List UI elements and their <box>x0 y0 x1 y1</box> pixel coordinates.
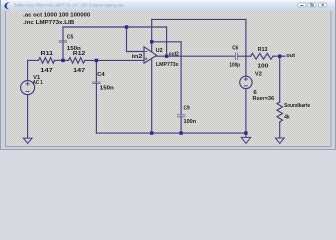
titlebar icon <box>4 2 9 9</box>
wire: main input run left of R11 <box>28 59 39 61</box>
op-amp U2 triangle <box>144 47 157 63</box>
svg-text:R13: R13 <box>258 47 268 53</box>
wire: load to ground <box>279 122 281 138</box>
resistor R12 <box>69 58 86 64</box>
wire: V1 top stub <box>27 60 29 80</box>
wire: R13 to out node <box>273 55 285 57</box>
wire: C4 upper lead <box>95 60 97 82</box>
voltage source V2 <box>240 76 252 88</box>
wire: -in branch horizontal <box>127 51 145 53</box>
wire: op-amp output to C6 <box>156 55 236 57</box>
wire: out node down to load <box>279 56 281 102</box>
wire: C5 upper lead to feedback rail <box>62 27 64 41</box>
svg-text:V2: V2 <box>255 71 262 77</box>
svg-text:R12: R12 <box>73 51 86 57</box>
svg-text:Sallen-Key-Filter mit LMP773x: Sallen-Key-Filter mit LMP773x 147 150 Fr… <box>14 2 125 7</box>
ground (V1) <box>23 138 32 143</box>
op-amp V- pin <box>151 59 153 133</box>
svg-text:AC 1: AC 1 <box>33 80 43 86</box>
wire: supply drop to V2 <box>245 19 247 76</box>
window button: close <box>318 3 326 7</box>
node V2 on rail <box>244 131 247 134</box>
svg-text:R11: R11 <box>41 51 54 57</box>
wire: feedback top rail <box>63 26 167 28</box>
node out2 <box>165 55 168 58</box>
capacitor C5 <box>59 41 67 42</box>
wire: bottom ground rail <box>96 132 246 134</box>
svg-text:LMP773x: LMP773x <box>156 62 179 68</box>
svg-text:100n: 100n <box>184 119 197 125</box>
node out <box>278 55 281 58</box>
ground (V2) <box>241 133 250 143</box>
wire: C5 lower lead <box>62 42 64 60</box>
op-amp input polarity marks <box>145 52 148 61</box>
svg-text:Soundkarte: Soundkarte <box>284 103 310 109</box>
svg-text:100p: 100p <box>229 62 240 68</box>
wire: bypass branch horizontal <box>152 41 181 43</box>
resistor R11 <box>39 58 55 64</box>
junction node dots <box>61 25 281 134</box>
resistor R13 <box>251 53 273 59</box>
node feedback/-in <box>125 25 128 28</box>
svg-text:100: 100 <box>257 64 268 70</box>
capacitor C4 <box>93 82 101 84</box>
capacitor C9 <box>177 115 185 117</box>
node V+/bypass <box>150 40 153 43</box>
wire: R12 to op-amp +in <box>85 59 144 61</box>
svg-text:.ac oct 1000 100 100000: .ac oct 1000 100 100000 <box>23 12 90 18</box>
wire: between R11 and R12 <box>55 59 69 61</box>
svg-text:out: out <box>286 53 295 59</box>
window button: restore <box>308 3 316 7</box>
voltage source V1 <box>21 81 35 95</box>
schematic client area <box>6 11 331 147</box>
svg-text:C4: C4 <box>97 72 105 78</box>
wire: bypass drop to C9 <box>180 42 182 115</box>
node V- on rail <box>150 131 153 134</box>
wire: C6 to R13 <box>238 55 251 57</box>
wire: V2 bottom lead <box>245 89 247 134</box>
ground (Soundkarte) <box>275 138 284 143</box>
svg-text:150n: 150n <box>100 86 114 92</box>
op-amp V+ pin <box>151 19 153 51</box>
title bar <box>1 1 335 11</box>
window button: minimize <box>298 3 306 7</box>
node R12/C4 <box>95 59 98 62</box>
svg-text:C5: C5 <box>67 35 74 41</box>
node R11/R12/C5 <box>61 59 64 62</box>
svg-text:in2: in2 <box>132 54 143 60</box>
svg-text:U2: U2 <box>156 48 163 54</box>
svg-text:out2: out2 <box>169 52 179 58</box>
wire: V+ supply top rail <box>152 18 246 20</box>
svg-text:4k: 4k <box>284 114 290 120</box>
wire: feedback drop to output node <box>166 27 168 56</box>
wire: V1 bottom lead <box>27 95 29 139</box>
window frame background <box>0 0 336 150</box>
wire: C4 lower lead to ground rail <box>95 84 97 134</box>
svg-text:147: 147 <box>40 68 53 74</box>
resistor Soundkarte 4k <box>277 102 283 122</box>
wire: -in branch vertical <box>126 27 128 52</box>
capacitor C6 <box>236 53 238 60</box>
svg-text:Rser=36: Rser=36 <box>253 96 275 102</box>
svg-text:147: 147 <box>73 68 85 74</box>
node C9 on rail <box>179 131 182 134</box>
svg-text:.inc LMP773x.LIB: .inc LMP773x.LIB <box>23 20 74 26</box>
wire: C9 lower lead <box>180 117 182 133</box>
schematic texts <box>23 12 310 125</box>
svg-text:C9: C9 <box>184 106 190 112</box>
svg-text:C6: C6 <box>232 45 238 51</box>
